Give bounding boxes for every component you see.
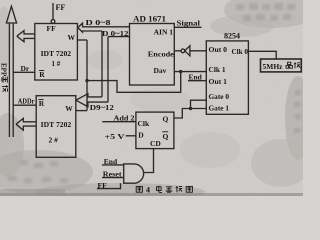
wire Dav to Clk1 <box>174 71 206 73</box>
wire AND output to CD <box>144 149 154 173</box>
junction dot W/Dav <box>85 79 88 82</box>
ADC U3 AD1671 box <box>130 24 175 86</box>
wire +5V stub to D <box>126 135 136 137</box>
wire Q to Gate1 <box>174 109 206 119</box>
junction dot Dav/Clk1 <box>179 70 182 73</box>
paper grain <box>0 0 303 196</box>
wire Clk0 to crystal <box>248 51 276 59</box>
wire FF flag stub up <box>52 3 54 20</box>
wire Dav to W jog <box>87 72 181 93</box>
ghost print bleed marks top-right <box>8 3 301 183</box>
EPP bus vertical hollow arrow <box>6 6 16 23</box>
wire Encode to inverter <box>174 50 181 52</box>
bus arrow from FIFO2 to EPP bus <box>16 118 36 130</box>
wire Signal analog input stub <box>174 26 201 28</box>
bus riser right line D0~12 <box>107 37 109 103</box>
inverter U4 <box>181 49 185 53</box>
crystal Y1 5MHz box <box>261 59 302 72</box>
caption 图4 电原理图 <box>136 186 192 195</box>
wire bus right line <box>12 23 14 137</box>
wire D0~12 to ADC <box>108 36 130 38</box>
overbar Qbar <box>162 131 168 133</box>
wire Dr read strobe to FIFO1 <box>13 71 35 73</box>
label crystal cjk <box>286 62 292 68</box>
wire FF input with jog <box>97 183 121 188</box>
bus riser left line D0~12 <box>101 31 103 97</box>
wire Reset input <box>102 177 124 179</box>
wire bus left line <box>8 23 10 137</box>
wire branch to Gate0 <box>191 100 207 108</box>
scan mottling <box>224 0 320 28</box>
junction dot Gate0/Gate1 <box>189 107 192 110</box>
wire inverter to Out0 <box>190 50 206 52</box>
wire End stub from Out1 <box>188 80 206 82</box>
wire Add2 stub to Clk <box>102 121 136 123</box>
wire W vertical joining both FIFOs <box>86 40 88 111</box>
bus arrow from FIFO1 to EPP bus <box>17 31 35 42</box>
wire W pin FIFO2 <box>76 110 87 112</box>
bus arrow D9~12 into FIFO2 <box>76 94 108 107</box>
paper background <box>0 0 303 196</box>
FIFO U1 IDT7202 1# box <box>35 24 78 81</box>
label EPP bus vertical <box>0 63 8 92</box>
flip-flop U6 D box <box>136 112 174 149</box>
inverting bubble on FF flag pin <box>51 20 55 24</box>
wire ADDr read strobe to FIFO2 <box>13 104 36 106</box>
overbar R FIFO2 <box>38 99 43 101</box>
timer U5 8254 box <box>206 41 248 114</box>
FIFO U2 IDT7202 2# box <box>36 96 76 158</box>
gate U7 AND <box>124 164 144 183</box>
wire W pin FIFO1 <box>77 39 87 41</box>
bus arrow D0~8 into FIFO1 <box>78 23 130 32</box>
wire End input <box>102 164 124 166</box>
overbar R FIFO1 <box>39 70 44 72</box>
